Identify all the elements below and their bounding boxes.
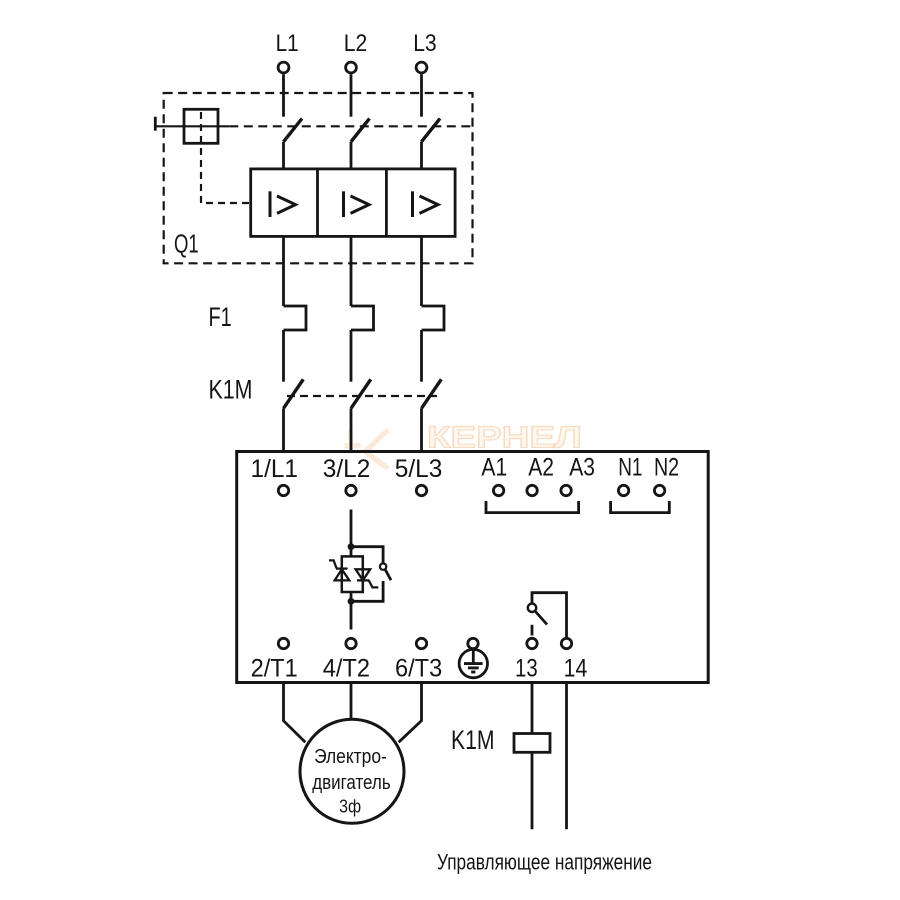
svg-text:L3: L3 xyxy=(413,30,437,57)
wire 6/T3 to motor xyxy=(399,683,422,743)
svg-text:K1M: K1M xyxy=(451,725,495,755)
bypass contact pivot xyxy=(380,563,386,569)
wire K1M to box pole3 xyxy=(420,408,423,451)
bracket N1-N2 xyxy=(611,501,670,513)
svg-text:K1M: K1M xyxy=(209,375,253,405)
motor M xyxy=(300,719,404,823)
wire 14 down xyxy=(565,683,568,830)
wire thyristor to 4/T2 xyxy=(350,592,353,630)
breaker Q1 dashed enclosure xyxy=(164,93,473,263)
watermark logo К xyxy=(344,430,388,469)
svg-text:N1: N1 xyxy=(618,454,642,482)
wire 2/T1 to motor xyxy=(284,683,306,743)
svg-text:КЕРНЕЛ: КЕРНЕЛ xyxy=(427,421,582,455)
wire L3 to Q1 xyxy=(420,74,423,117)
relay fixed stub xyxy=(531,625,534,636)
terminal N1 xyxy=(618,485,628,495)
terminal 13 xyxy=(527,638,537,648)
coil K1M xyxy=(514,734,550,753)
earth symbol xyxy=(459,649,487,677)
wire 13 to coil xyxy=(531,683,534,734)
terminal A1 xyxy=(493,485,503,495)
contactor K1M pole1 blade xyxy=(284,379,304,408)
wire pole2 blade to trip box xyxy=(350,142,353,169)
svg-text:L1: L1 xyxy=(276,30,299,57)
Q1 trip linkage dashed segment xyxy=(229,125,472,127)
terminal L1 xyxy=(278,62,289,73)
terminal 1/L1 xyxy=(278,485,288,495)
wire L2 to Q1 xyxy=(350,74,353,117)
wire trip box to fuse F1 pole3 xyxy=(420,236,423,306)
terminal A2 xyxy=(527,485,537,495)
terminal L3 xyxy=(416,62,427,73)
relay blade xyxy=(535,611,547,625)
thyristor V2 (right, down) xyxy=(356,569,379,587)
bypass branch bottom wire xyxy=(353,581,383,601)
svg-text:A3: A3 xyxy=(569,454,595,482)
Q1 overcurrent trip boxes xyxy=(251,169,455,237)
svg-text:Управляющее напряжение: Управляющее напряжение xyxy=(437,850,652,875)
svg-text:L2: L2 xyxy=(344,30,368,57)
contactor K1M pole2 blade xyxy=(351,379,371,408)
svg-text:A2: A2 xyxy=(528,454,554,482)
terminal N2 xyxy=(654,485,664,495)
svg-text:4/T2: 4/T2 xyxy=(323,655,370,683)
svg-text:A1: A1 xyxy=(481,454,507,482)
terminal PE xyxy=(468,638,478,648)
bypass branch top wire xyxy=(353,547,383,564)
wire K1M to box pole1 xyxy=(282,408,285,451)
wire trip box to fuse F1 pole2 xyxy=(350,236,353,306)
fuse F1 pole1 xyxy=(284,306,307,330)
terminal 5/L3 xyxy=(416,485,426,495)
Q1 pole 1 contact blade xyxy=(284,119,303,142)
terminal A3 xyxy=(561,485,571,495)
svg-text:Q1: Q1 xyxy=(174,229,199,259)
Q1 trip dashed link vertical xyxy=(201,112,251,203)
thyristor module box xyxy=(342,556,363,592)
terminal 2/T1 xyxy=(278,638,288,648)
fuse F1 pole3 xyxy=(422,306,445,330)
wire pole1 blade to trip box xyxy=(282,142,285,169)
wire fuse to K1M pole3 xyxy=(420,330,423,382)
bypass contact blade xyxy=(385,570,391,581)
terminal 14 xyxy=(561,638,571,648)
Q1 trip linkage solid segment xyxy=(155,125,229,127)
K1M linkage dashed xyxy=(287,395,437,397)
contactor K1M pole3 blade xyxy=(422,379,442,408)
svg-text:13: 13 xyxy=(515,655,538,683)
Q1 trip unit square xyxy=(184,109,218,143)
wire pole3 blade to trip box xyxy=(420,142,423,169)
node top junction xyxy=(348,543,355,550)
svg-text:F1: F1 xyxy=(209,302,232,332)
Q1 manual handle tick xyxy=(154,117,157,131)
wire fuse to K1M pole2 xyxy=(350,330,353,382)
svg-text:6/T3: 6/T3 xyxy=(395,655,442,683)
Q1 pole 3 contact blade xyxy=(422,119,441,142)
node bottom junction xyxy=(348,598,355,605)
svg-text:3/L2: 3/L2 xyxy=(323,455,371,483)
svg-text:5/L3: 5/L3 xyxy=(395,455,443,483)
I> symbol pole2 xyxy=(344,191,370,217)
terminal 3/L2 xyxy=(346,485,356,495)
svg-text:3ф: 3ф xyxy=(339,797,361,817)
bracket A1-A3 xyxy=(486,501,579,513)
I> symbol pole3 xyxy=(413,191,439,217)
soft starter box xyxy=(237,452,709,683)
I> symbol pole1 xyxy=(270,191,296,217)
wire 4/T2 to motor xyxy=(350,683,353,720)
svg-text:2/T1: 2/T1 xyxy=(251,655,298,683)
thyristor V1 (left, up) xyxy=(329,560,349,580)
relay contact top wire xyxy=(532,593,567,638)
svg-text:Электро-: Электро- xyxy=(314,746,387,768)
terminal 4/T2 xyxy=(346,638,356,648)
relay pivot circle xyxy=(528,604,536,612)
wire L1 to Q1 xyxy=(282,74,285,117)
terminal L2 xyxy=(346,62,357,73)
terminal 6/T3 xyxy=(416,638,426,648)
wire fuse to K1M pole1 xyxy=(282,330,285,382)
wire K1M to box pole2 xyxy=(350,408,353,451)
svg-text:N2: N2 xyxy=(654,454,679,482)
Q1 pole 2 contact blade xyxy=(351,119,370,142)
fuse F1 pole2 xyxy=(351,306,374,330)
svg-text:14: 14 xyxy=(564,655,588,683)
svg-text:двигатель: двигатель xyxy=(312,772,391,794)
wire 3/L2 to thyristor node xyxy=(350,510,353,557)
wire trip box to fuse F1 pole1 xyxy=(282,236,285,306)
wire coil down xyxy=(531,752,534,829)
svg-text:1/L1: 1/L1 xyxy=(251,455,299,483)
